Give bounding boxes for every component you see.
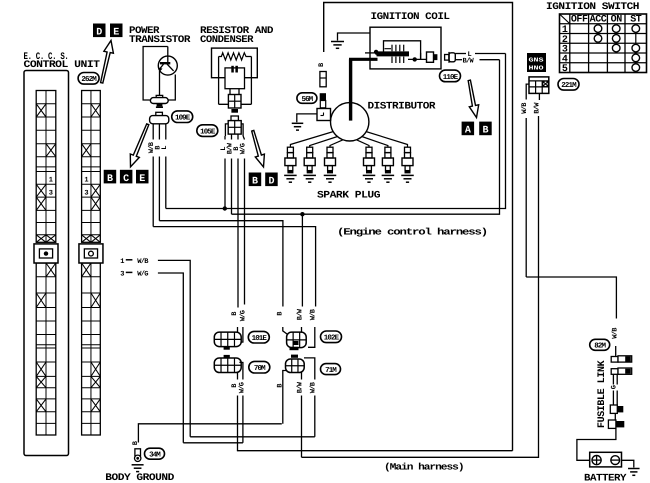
connector stack upper 2x2 — [228, 95, 241, 109]
connector ref 101E — [248, 331, 269, 343]
distributor circle — [331, 103, 369, 141]
table diagonal — [560, 14, 570, 24]
resistor lead bottom — [219, 103, 252, 105]
wire W/B power transistor to 102E — [153, 227, 315, 307]
svg-text:W/B: W/B — [611, 327, 620, 339]
svg-text:(Main harness): (Main harness) — [384, 462, 464, 473]
svg-text:W/B: W/B — [309, 308, 318, 320]
wire B from 70M — [237, 373, 239, 380]
svg-text:E: E — [139, 174, 145, 185]
70M top tab — [224, 355, 230, 358]
svg-text:71M: 71M — [325, 367, 337, 375]
ign switch contact circles — [594, 25, 602, 33]
cross-ref B — [104, 170, 117, 184]
wire B/W H5 — [302, 116, 539, 457]
svg-text:FUSIBLE LINK: FUSIBLE LINK — [597, 360, 608, 428]
connector ref 105E — [197, 125, 218, 137]
power transistor connector bar — [156, 95, 163, 98]
connector ref 34M — [145, 448, 165, 459]
junction dot B/W bus — [300, 212, 304, 216]
connector ref 110E — [440, 70, 461, 82]
power transistor box — [143, 47, 168, 101]
spark plug wire 4 — [357, 140, 370, 147]
svg-text:TRANSISTOR: TRANSISTOR — [129, 35, 190, 46]
wire W/B ign switch — [526, 84, 529, 99]
arrow to B C E — [130, 124, 149, 167]
wire B from power transistor — [158, 124, 160, 140]
svg-text:BODY GROUND: BODY GROUND — [105, 473, 174, 483]
black note box — [527, 53, 546, 72]
wire L condenser drop — [224, 206, 226, 208]
svg-text:W/G: W/G — [239, 310, 248, 321]
connector 105E symbol — [231, 116, 238, 121]
wire W/B H2 — [190, 436, 315, 438]
coil node line1 — [375, 52, 377, 55]
battery box — [590, 452, 622, 467]
condenser housing — [225, 68, 245, 89]
eyelet terminal — [135, 455, 141, 461]
connector ref 82M — [590, 339, 610, 350]
ECCS connector strip right (262M half) — [82, 91, 101, 243]
svg-text:1: 1 — [120, 258, 124, 266]
svg-text:IGNITION SWITCH: IGNITION SWITCH — [546, 2, 640, 13]
svg-text:E: E — [113, 28, 119, 39]
71M top tab — [291, 355, 298, 358]
wire B from 71M — [283, 371, 287, 424]
wire L from condenser — [224, 136, 226, 140]
svg-text:B/W: B/W — [533, 102, 542, 114]
fusible link wire 2 — [614, 413, 616, 420]
fusible connector pair 1 — [611, 357, 618, 363]
ign switch ST line — [635, 29, 637, 68]
connector 221M — [529, 77, 549, 94]
transistor Q1 emitter lead — [159, 71, 161, 98]
HT wire into distributor — [349, 103, 352, 121]
svg-text:B/W: B/W — [296, 381, 305, 393]
cross-ref B4 — [479, 122, 492, 136]
fusible link double wire — [612, 374, 614, 384]
coil inner winding box — [384, 41, 421, 60]
spark plug 6 — [405, 147, 411, 152]
wire fusible to battery — [577, 428, 616, 460]
svg-text:W/G: W/G — [137, 270, 148, 279]
spark plug 3 — [327, 147, 333, 152]
table row lines — [560, 23, 647, 25]
cross-ref D — [93, 24, 106, 38]
svg-text:B/W: B/W — [463, 57, 475, 66]
ECCS control unit outer box — [24, 71, 69, 456]
spark plug 5 — [385, 147, 391, 152]
101E bottom tab — [224, 347, 230, 350]
wire W/B to fusible link — [526, 277, 616, 319]
svg-text:56M: 56M — [301, 95, 313, 104]
connector ref 109E — [172, 111, 193, 123]
coil core lines — [385, 48, 392, 50]
coil ground wire — [338, 33, 371, 41]
spark plug 2 — [307, 147, 313, 152]
resistor lead left — [218, 57, 220, 105]
resistor R1 zigzag — [219, 53, 252, 60]
power transistor lead top — [167, 47, 169, 57]
connector 34M symbol — [135, 449, 141, 456]
wire W/G H3 — [183, 442, 243, 444]
distributor mount box — [317, 109, 331, 121]
svg-text:262M: 262M — [81, 75, 97, 84]
svg-text:221M: 221M — [561, 81, 577, 90]
connector 70M — [214, 358, 241, 373]
connector 101E — [214, 332, 241, 347]
coil secondary ticks — [391, 57, 393, 63]
svg-text:B: B — [107, 174, 113, 185]
svg-text:102E: 102E — [324, 334, 340, 343]
svg-text:B: B — [252, 177, 258, 188]
connector ref 221M — [558, 79, 579, 91]
engine harness boundary top+right — [324, 3, 513, 451]
svg-text:D: D — [268, 177, 274, 188]
102E bottom tab — [290, 347, 299, 350]
wire W/B pin1 — [158, 260, 190, 436]
transistor Q1 symbol — [167, 56, 169, 63]
wire W/G from condenser — [243, 136, 244, 140]
svg-text:109E: 109E — [175, 114, 191, 123]
cross-ref E2 — [136, 170, 149, 184]
spark plug wire 3 — [330, 140, 343, 147]
capacitor C1 plates — [231, 66, 234, 73]
fusible connector 4 — [608, 420, 616, 428]
svg-text:D: D — [96, 28, 102, 39]
svg-text:CONTROL UNIT: CONTROL UNIT — [24, 60, 100, 71]
svg-text:W/G: W/G — [239, 143, 248, 154]
svg-text:IGNITION COIL: IGNITION COIL — [371, 12, 450, 23]
svg-text:A: A — [465, 126, 471, 137]
ground symbol distributor — [292, 122, 304, 124]
ign switch ACC line — [597, 29, 599, 39]
wire W/G from 70M — [239, 362, 243, 379]
spark plug 4 — [366, 147, 372, 152]
transistor Q1 circle — [158, 56, 177, 75]
cross-ref E — [110, 24, 123, 38]
svg-text:82M: 82M — [594, 342, 606, 351]
wire B power transistor to 102E — [159, 221, 283, 307]
distributor condenser lower rect — [320, 101, 325, 108]
resistor-condenser outer box — [212, 48, 258, 78]
arrow to A B — [468, 80, 479, 117]
cross-ref B3 — [249, 173, 262, 187]
coil right link — [420, 53, 422, 60]
junction dot L bus — [223, 206, 227, 210]
svg-text:W/B: W/B — [137, 257, 149, 266]
coil HT thick bar — [377, 51, 410, 56]
connector ref 71M — [321, 364, 341, 375]
svg-text:ST: ST — [630, 15, 642, 26]
wire ground bus H1 — [138, 424, 281, 443]
ECCS connector strip left (262M half) — [36, 91, 56, 243]
svg-text:OFF: OFF — [571, 15, 588, 26]
ground symbol battery — [628, 468, 640, 470]
fusible connector pair 2 — [611, 369, 618, 375]
svg-text:W/B: W/B — [520, 102, 529, 114]
svg-text:GNS: GNS — [529, 57, 545, 64]
svg-text:1: 1 — [84, 177, 88, 185]
table col lines — [569, 14, 571, 73]
battery minus terminal — [611, 456, 620, 465]
svg-text:SPARK PLUG: SPARK PLUG — [317, 191, 381, 202]
connector ref 102E — [321, 331, 342, 343]
wire W/B from 71M — [304, 358, 315, 380]
connector stack black tab — [231, 109, 238, 113]
power transistor lead right — [168, 75, 175, 101]
coil primary ticks — [391, 45, 393, 52]
condenser neck — [229, 89, 231, 95]
wire B/W ign switch — [538, 93, 540, 100]
wire B/W branch down to 102E — [301, 214, 303, 306]
arrow to D E — [101, 41, 114, 84]
wire B/W from 71M — [301, 373, 303, 380]
svg-text:ACC: ACC — [590, 15, 607, 26]
coil node dot2 — [413, 57, 417, 61]
svg-text:110E: 110E — [443, 73, 459, 82]
fusible connector 3 — [610, 405, 617, 413]
svg-text:70M: 70M — [254, 364, 266, 373]
spark plug wire 5 — [362, 137, 388, 148]
condenser C2 body — [320, 72, 326, 87]
svg-text:105E: 105E — [200, 128, 216, 137]
connector ref 70M — [249, 361, 270, 373]
svg-text:B: B — [482, 126, 488, 137]
cross-ref D2 — [265, 173, 278, 187]
arrow to B D — [252, 130, 265, 167]
ignition coil box — [370, 27, 441, 69]
connector 109E symbol — [156, 112, 163, 116]
wire B/W to coil — [455, 59, 462, 61]
ground symbol body — [132, 464, 144, 466]
connector 102E — [287, 332, 307, 348]
coil node dot1 — [374, 50, 378, 54]
svg-text:3: 3 — [120, 271, 124, 279]
svg-text:3: 3 — [49, 190, 53, 198]
ign switch ON line — [615, 29, 617, 48]
distributor condenser black connector — [320, 93, 326, 100]
wire B/W bus — [232, 60, 500, 215]
coil terminal connector pair — [445, 55, 449, 61]
svg-text:B/W: B/W — [296, 308, 305, 320]
svg-text:CONDENSER: CONDENSER — [200, 35, 253, 46]
svg-text:5: 5 — [562, 64, 568, 75]
svg-text:(Engine control harness): (Engine control harness) — [337, 227, 487, 238]
svg-text:ON: ON — [611, 15, 623, 26]
svg-text:DISTRIBUTOR: DISTRIBUTOR — [368, 102, 436, 113]
wire W/G pin3 — [158, 273, 183, 443]
battery ground wire — [622, 460, 634, 467]
spark plug wire 1 — [290, 132, 333, 148]
wire W/B stub — [615, 346, 617, 357]
svg-text:W/B: W/B — [309, 381, 318, 393]
coil HT terminal — [427, 52, 434, 62]
cross-ref C — [120, 170, 132, 184]
wire W/B from power transistor — [152, 124, 154, 140]
battery plus terminal — [592, 456, 601, 465]
svg-text:34M: 34M — [149, 451, 161, 460]
svg-text:G: G — [611, 385, 619, 389]
wire L bus — [166, 54, 506, 209]
cross-ref A — [462, 122, 475, 136]
HT wire thick — [349, 59, 352, 120]
spark plug 1 — [287, 147, 293, 152]
svg-text:1: 1 — [49, 177, 53, 185]
wire B from condenser — [237, 134, 239, 139]
svg-text:L: L — [161, 146, 169, 150]
svg-text:C: C — [123, 174, 129, 185]
wire B loop H4 — [237, 450, 513, 452]
resistor lead right — [250, 57, 252, 105]
spark plug wire 6 — [366, 132, 408, 148]
svg-text:HNO: HNO — [529, 65, 545, 72]
connector ref 262M — [78, 73, 99, 85]
connector 71M — [286, 359, 305, 373]
ignition switch table frame — [560, 14, 647, 73]
ground symbol coil — [331, 41, 344, 43]
wire L to coil — [455, 53, 466, 55]
svg-text:W/G: W/G — [238, 382, 247, 393]
distributor ground wire — [297, 114, 317, 122]
wire B/W from condenser — [231, 134, 233, 139]
svg-text:BATTERY: BATTERY — [584, 474, 626, 483]
svg-text:101E: 101E — [252, 334, 268, 343]
connector ref 56M — [297, 93, 317, 104]
svg-text:3: 3 — [84, 190, 88, 198]
spark plug wire 2 — [310, 137, 338, 148]
wire L from power transistor — [165, 124, 167, 140]
